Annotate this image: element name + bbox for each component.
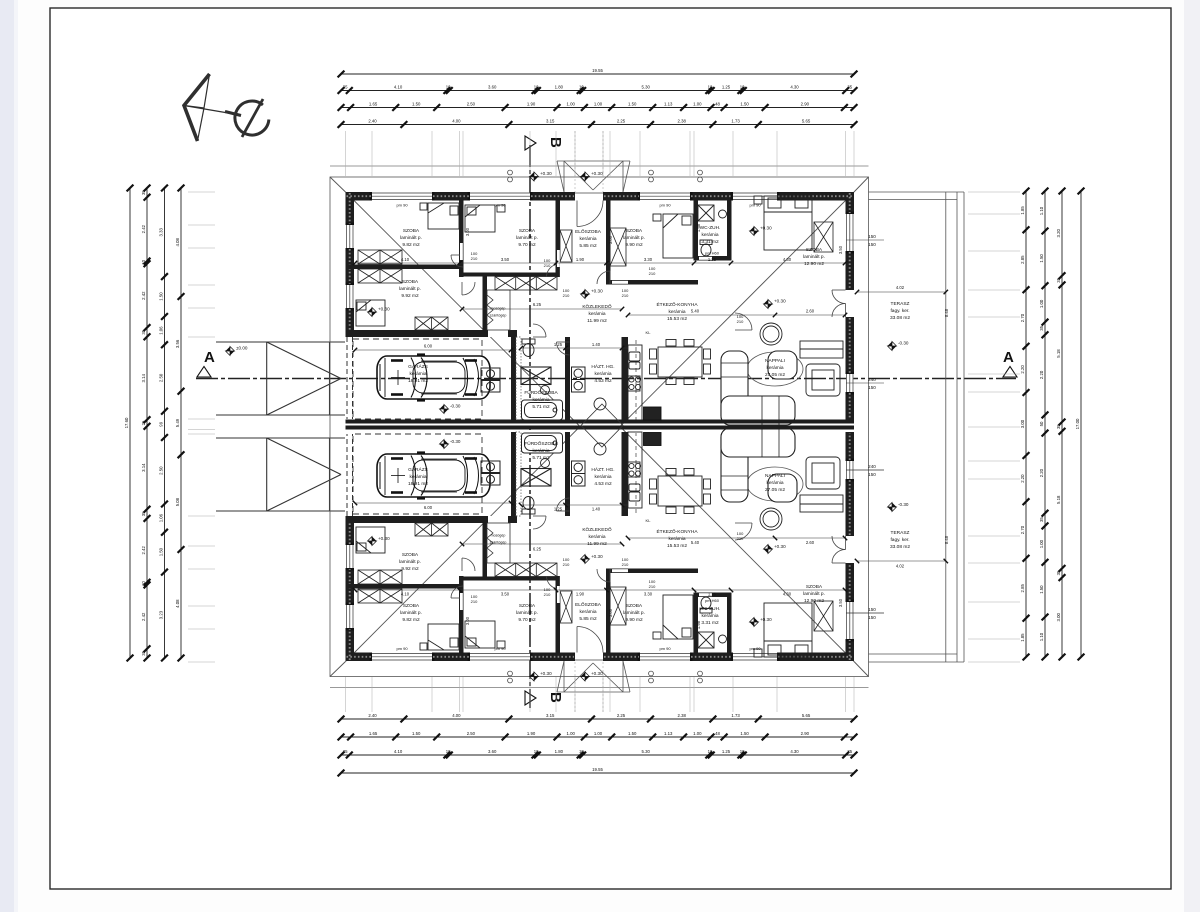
svg-text:210: 210 xyxy=(649,271,656,276)
svg-text:laminált p.: laminált p. xyxy=(516,610,538,616)
svg-text:9.82 m2: 9.82 m2 xyxy=(402,242,420,248)
svg-text:48: 48 xyxy=(715,101,720,106)
middle dim line xyxy=(521,347,628,349)
entrance threshold xyxy=(575,192,603,194)
svg-text:2.70: 2.70 xyxy=(1020,525,1025,534)
svg-text:1.25: 1.25 xyxy=(708,257,717,262)
svg-text:240: 240 xyxy=(868,464,876,469)
washer dryer hazt xyxy=(572,367,586,392)
svg-text:laminált p.: laminált p. xyxy=(399,559,421,565)
svg-text:18.91 m2: 18.91 m2 xyxy=(408,378,428,384)
svg-text:1.85: 1.85 xyxy=(1020,633,1025,642)
svg-text:3.33: 3.33 xyxy=(159,228,164,237)
svg-text:+0.30: +0.30 xyxy=(591,554,603,559)
hazt door arc xyxy=(557,342,570,355)
svg-text:210: 210 xyxy=(737,536,744,541)
right chain 3 xyxy=(1056,188,1065,661)
ceiling dashed line xyxy=(635,340,637,420)
svg-text:1.73: 1.73 xyxy=(731,713,740,718)
svg-text:5.71 m2: 5.71 m2 xyxy=(532,404,550,410)
exterior wall left xyxy=(346,192,355,225)
svg-text:kerámia: kerámia xyxy=(701,232,718,238)
svg-text:3.20: 3.20 xyxy=(1056,229,1061,238)
svg-text:35: 35 xyxy=(847,749,852,754)
svg-text:laminált p.: laminált p. xyxy=(516,235,538,241)
window left 1 xyxy=(346,223,355,251)
svg-text:9.92 m2: 9.92 m2 xyxy=(401,293,419,299)
insulation strip xyxy=(516,337,521,421)
svg-text:10: 10 xyxy=(141,581,146,586)
svg-text:-0.30: -0.30 xyxy=(898,341,909,346)
garage dashed outline xyxy=(353,339,482,419)
svg-text:35: 35 xyxy=(141,511,146,516)
svg-text:9.90 m2: 9.90 m2 xyxy=(625,617,643,623)
coffee table xyxy=(760,323,782,345)
svg-text:10: 10 xyxy=(141,259,146,264)
kitchen counter xyxy=(628,345,642,421)
svg-text:kerámia: kerámia xyxy=(766,480,783,486)
svg-text:szárítógép: szárítógép xyxy=(490,540,507,544)
interior wall szoba1/szoba2 xyxy=(346,265,464,270)
garage/bath wall xyxy=(511,337,516,421)
svg-text:SZOBA: SZOBA xyxy=(806,584,823,590)
level marker xyxy=(750,227,759,236)
svg-text:1.50: 1.50 xyxy=(1039,254,1044,263)
svg-text:+0.30: +0.30 xyxy=(774,299,786,304)
svg-text:9.82 m2: 9.82 m2 xyxy=(402,617,420,623)
svg-text:35: 35 xyxy=(141,329,146,334)
svg-text:10: 10 xyxy=(708,749,713,754)
level marker xyxy=(368,308,377,317)
svg-text:35: 35 xyxy=(1039,325,1044,330)
svg-text:3.15: 3.15 xyxy=(546,118,555,123)
svg-text:KL: KL xyxy=(646,330,652,335)
svg-text:150: 150 xyxy=(868,615,876,620)
living dim line xyxy=(628,314,845,316)
washer dryer mudroom xyxy=(481,368,500,392)
svg-text:2.38: 2.38 xyxy=(678,713,687,718)
svg-text:35: 35 xyxy=(1056,570,1061,575)
svg-text:10: 10 xyxy=(446,84,451,89)
right chain total xyxy=(1075,188,1084,661)
level marker xyxy=(888,342,897,351)
level marker xyxy=(440,405,449,414)
svg-text:3.50: 3.50 xyxy=(838,598,843,607)
insulation bubbles left wall xyxy=(349,193,351,224)
wardrobe szoba 9.70 xyxy=(495,277,557,291)
extension lines top xyxy=(345,131,347,176)
svg-text:1.90: 1.90 xyxy=(576,591,585,596)
svg-text:10: 10 xyxy=(740,84,745,89)
top chain rooms xyxy=(338,101,858,111)
svg-text:kerámia: kerámia xyxy=(701,613,718,619)
svg-text:B: B xyxy=(547,137,564,148)
wardrobe szoba 12.90 xyxy=(814,222,833,252)
svg-text:4.53 m2: 4.53 m2 xyxy=(594,378,612,384)
svg-text:2.20: 2.20 xyxy=(1020,474,1025,483)
bed szoba1 xyxy=(420,203,459,229)
svg-text:ELŐSZOBA: ELŐSZOBA xyxy=(575,601,602,608)
svg-text:1.13: 1.13 xyxy=(664,101,673,106)
svg-text:10: 10 xyxy=(446,749,451,754)
svg-text:B: B xyxy=(547,692,564,703)
svg-text:4.10: 4.10 xyxy=(394,749,403,754)
svg-text:1.00: 1.00 xyxy=(567,731,576,736)
svg-text:210: 210 xyxy=(622,293,629,298)
kitchen appliances middle xyxy=(581,404,661,447)
wardrobe szoba 9.90 xyxy=(610,228,626,266)
wardrobe wall xyxy=(462,273,559,277)
svg-text:3.50: 3.50 xyxy=(501,591,510,596)
left scan strip xyxy=(0,0,14,912)
corridor arc 1 xyxy=(462,282,475,295)
svg-text:pm 90: pm 90 xyxy=(659,646,671,651)
svg-text:1.85: 1.85 xyxy=(1020,206,1025,215)
svg-text:9.90 m2: 9.90 m2 xyxy=(625,242,643,248)
svg-text:kerámia: kerámia xyxy=(668,536,685,542)
svg-text:210: 210 xyxy=(737,319,744,324)
svg-text:3.14: 3.14 xyxy=(141,463,146,472)
exterior wall right xyxy=(846,251,855,290)
svg-text:5.18: 5.18 xyxy=(1056,495,1061,504)
svg-text:laminált p.: laminált p. xyxy=(623,235,645,241)
svg-text:3.00: 3.00 xyxy=(465,227,470,236)
bath sink xyxy=(541,386,550,395)
svg-text:NAPPALI: NAPPALI xyxy=(765,473,785,479)
svg-text:3.00: 3.00 xyxy=(608,235,613,244)
bed szoba 12.90 xyxy=(754,196,812,250)
level marker entry top 2 xyxy=(581,172,590,181)
svg-text:1.00: 1.00 xyxy=(594,731,603,736)
svg-text:5.85 m2: 5.85 m2 xyxy=(579,616,597,622)
svg-text:+0.30: +0.30 xyxy=(540,671,552,676)
right chain 1 xyxy=(1020,188,1029,661)
svg-text:4.30: 4.30 xyxy=(790,749,799,754)
svg-text:1.00: 1.00 xyxy=(594,101,603,106)
svg-text:4.53 m2: 4.53 m2 xyxy=(594,481,612,487)
svg-text:10: 10 xyxy=(740,749,745,754)
wardrobe szoba2 bottom xyxy=(415,317,448,330)
exterior wall top xyxy=(346,192,373,201)
svg-text:6.00: 6.00 xyxy=(424,344,433,349)
exterior wall top xyxy=(603,192,640,201)
svg-text:pm 90: pm 90 xyxy=(749,203,761,208)
svg-text:mosógép: mosógép xyxy=(491,307,506,311)
szoba 9.90 door arc xyxy=(597,271,610,284)
svg-text:2.90: 2.90 xyxy=(801,101,810,106)
svg-text:3.00: 3.00 xyxy=(465,616,470,625)
szoba 9.70 door arc xyxy=(547,264,560,277)
bath/hazt wall xyxy=(565,337,570,421)
svg-text:18.91 m2: 18.91 m2 xyxy=(408,481,428,487)
svg-text:2.42: 2.42 xyxy=(141,224,146,233)
svg-text:4.30: 4.30 xyxy=(783,257,792,262)
interior dim line rooms xyxy=(353,261,847,265)
svg-text:1.40: 1.40 xyxy=(592,506,601,511)
svg-text:1.90: 1.90 xyxy=(576,257,585,262)
bottom chain total xyxy=(338,767,858,777)
svg-text:9.70 m2: 9.70 m2 xyxy=(518,617,536,623)
svg-text:pm 90: pm 90 xyxy=(659,203,671,208)
svg-text:laminált p.: laminált p. xyxy=(400,610,422,616)
svg-text:8.48: 8.48 xyxy=(944,308,949,317)
svg-text:210: 210 xyxy=(544,263,551,268)
svg-text:19.55: 19.55 xyxy=(592,767,603,772)
svg-text:1.50: 1.50 xyxy=(740,731,749,736)
svg-text:2.42: 2.42 xyxy=(141,291,146,300)
svg-text:210: 210 xyxy=(563,562,570,567)
entrance extension lines xyxy=(574,131,576,192)
svg-text:15.53 m2: 15.53 m2 xyxy=(667,316,687,322)
svg-text:+0.30: +0.30 xyxy=(760,226,772,231)
svg-text:17.60: 17.60 xyxy=(124,417,129,428)
party wall xyxy=(346,420,855,424)
section marker B top xyxy=(525,136,536,150)
wc fixtures xyxy=(698,205,727,256)
svg-text:szárítógép: szárítógép xyxy=(490,313,507,317)
svg-text:SZOBA: SZOBA xyxy=(519,228,536,234)
svg-text:10: 10 xyxy=(579,749,584,754)
svg-text:1.00: 1.00 xyxy=(1039,539,1044,548)
svg-text:4.00: 4.00 xyxy=(452,713,461,718)
svg-text:15.53 m2: 15.53 m2 xyxy=(667,543,687,549)
svg-text:1.65: 1.65 xyxy=(369,731,378,736)
top chain total xyxy=(338,68,858,78)
svg-text:2.90: 2.90 xyxy=(801,731,810,736)
svg-text:laminált p.: laminált p. xyxy=(803,254,825,260)
svg-text:1.25: 1.25 xyxy=(722,749,731,754)
svg-text:10: 10 xyxy=(579,84,584,89)
svg-text:2.20: 2.20 xyxy=(1039,370,1044,379)
svg-text:A: A xyxy=(204,349,215,366)
svg-text:KL: KL xyxy=(646,518,652,523)
laundry closet xyxy=(487,290,510,330)
svg-text:kerámia: kerámia xyxy=(766,365,783,371)
svg-text:1.90: 1.90 xyxy=(527,731,536,736)
svg-text:+0.30: +0.30 xyxy=(378,536,390,541)
svg-text:35: 35 xyxy=(343,84,348,89)
interior wall eloszoba right xyxy=(606,201,611,285)
svg-text:WC-ZUH.: WC-ZUH. xyxy=(700,225,721,231)
svg-text:1.90: 1.90 xyxy=(527,101,536,106)
svg-text:2.38: 2.38 xyxy=(678,118,687,123)
svg-text:laminált p.: laminált p. xyxy=(803,591,825,597)
svg-text:1.06: 1.06 xyxy=(159,513,164,522)
svg-text:+0.30: +0.30 xyxy=(378,307,390,312)
svg-text:5.18: 5.18 xyxy=(1056,349,1061,358)
svg-text:48: 48 xyxy=(715,731,720,736)
driveway lower garage xyxy=(216,438,345,511)
svg-text:8.48: 8.48 xyxy=(944,535,949,544)
svg-text:12.90 m2: 12.90 m2 xyxy=(804,261,824,267)
car in garage xyxy=(377,355,490,401)
svg-text:TERASZ: TERASZ xyxy=(891,530,910,536)
svg-text:1.50: 1.50 xyxy=(628,731,637,736)
nappali rug ellipse xyxy=(747,352,803,386)
svg-text:33.08 m2: 33.08 m2 xyxy=(890,315,910,321)
svg-text:SZOBA: SZOBA xyxy=(402,279,419,285)
svg-text:210: 210 xyxy=(471,256,478,261)
svg-text:2.40: 2.40 xyxy=(368,713,377,718)
svg-text:3.31 m2: 3.31 m2 xyxy=(701,620,719,626)
bottom chain openings xyxy=(338,749,858,759)
svg-text:10: 10 xyxy=(534,749,539,754)
svg-text:kerámia: kerámia xyxy=(594,371,611,377)
svg-text:-0.30: -0.30 xyxy=(450,439,461,444)
terrace door arc 2 xyxy=(832,304,846,318)
window right 2 xyxy=(846,372,855,395)
svg-text:kerámia: kerámia xyxy=(579,236,596,242)
exterior wall left xyxy=(346,308,355,337)
corridor dim line xyxy=(462,308,622,310)
section line A-A xyxy=(196,378,1016,380)
svg-text:1.10: 1.10 xyxy=(1039,632,1044,641)
svg-text:SZOBA: SZOBA xyxy=(403,228,420,234)
svg-text:4.30: 4.30 xyxy=(790,84,799,89)
svg-text:SZOBA: SZOBA xyxy=(402,552,419,558)
svg-text:NAPPALI: NAPPALI xyxy=(765,358,785,364)
svg-text:6.25: 6.25 xyxy=(533,302,542,307)
svg-text:9.70 m2: 9.70 m2 xyxy=(518,242,536,248)
svg-text:3.00: 3.00 xyxy=(1056,613,1061,622)
svg-text:3.15: 3.15 xyxy=(546,713,555,718)
wardrobe szoba2 top xyxy=(358,269,402,283)
svg-text:1.73: 1.73 xyxy=(731,118,740,123)
svg-text:210: 210 xyxy=(471,599,478,604)
door gap szoba1 xyxy=(460,243,463,260)
entrance door arc xyxy=(577,201,603,227)
svg-text:9.92 m2: 9.92 m2 xyxy=(401,566,419,572)
gutter line top xyxy=(330,165,869,167)
garage top wall xyxy=(346,330,518,337)
svg-text:pm 90: pm 90 xyxy=(396,646,408,651)
svg-text:SZOBA: SZOBA xyxy=(626,603,643,609)
bathtub xyxy=(522,400,563,420)
svg-text:pm H60: pm H60 xyxy=(705,598,720,603)
tv bench and armchair xyxy=(800,341,843,396)
extension lines left xyxy=(188,191,215,193)
svg-text:3.50: 3.50 xyxy=(501,257,510,262)
svg-text:5.40: 5.40 xyxy=(691,309,700,314)
svg-text:HÁZT. HG.: HÁZT. HG. xyxy=(591,363,614,370)
left chain total xyxy=(124,185,133,662)
svg-text:33.08 m2: 33.08 m2 xyxy=(890,544,910,550)
svg-text:pm 90: pm 90 xyxy=(494,203,506,208)
svg-text:3.30: 3.30 xyxy=(644,257,653,262)
svg-text:GARÁZS: GARÁZS xyxy=(408,466,428,473)
svg-text:1.00: 1.00 xyxy=(693,101,702,106)
bottom chain walls xyxy=(338,713,858,723)
bottom chain rooms xyxy=(338,731,858,741)
window szoba 9.70 xyxy=(468,192,533,201)
insulation bubbles right wall xyxy=(849,193,851,213)
svg-text:kerámia: kerámia xyxy=(532,448,549,454)
szoba 9.90 bottom wall xyxy=(606,280,698,285)
svg-text:4.02: 4.02 xyxy=(896,563,905,568)
svg-text:ELŐSZOBA: ELŐSZOBA xyxy=(575,228,602,235)
svg-text:TERASZ: TERASZ xyxy=(891,301,910,307)
exterior wall top xyxy=(690,192,733,201)
wardrobe szoba1 xyxy=(358,250,402,264)
svg-text:ÉTKEZŐ-KONYHA: ÉTKEZŐ-KONYHA xyxy=(656,528,698,535)
svg-text:1.50: 1.50 xyxy=(159,292,164,301)
extension lines bottom xyxy=(345,677,347,712)
svg-text:1.00: 1.00 xyxy=(1039,299,1044,308)
svg-text:1.80: 1.80 xyxy=(555,749,564,754)
svg-text:1.50: 1.50 xyxy=(159,547,164,556)
svg-text:kerámia: kerámia xyxy=(409,474,426,480)
svg-text:1.13: 1.13 xyxy=(664,731,673,736)
svg-text:35: 35 xyxy=(1056,277,1061,282)
svg-text:150: 150 xyxy=(868,234,876,239)
svg-text:10: 10 xyxy=(708,84,713,89)
window szoba 9.90 xyxy=(638,192,693,201)
svg-text:35: 35 xyxy=(1056,424,1061,429)
window left 2 xyxy=(346,283,355,311)
svg-text:5.71 m2: 5.71 m2 xyxy=(532,455,550,461)
svg-text:+0.30: +0.30 xyxy=(591,671,603,676)
eloszoba closet xyxy=(560,230,572,262)
exterior wall top xyxy=(530,192,575,201)
exterior wall right xyxy=(846,392,855,421)
svg-text:35: 35 xyxy=(1039,517,1044,522)
svg-text:25: 25 xyxy=(141,420,146,425)
eaves outline xyxy=(330,177,964,677)
svg-text:1.65: 1.65 xyxy=(369,101,378,106)
svg-text:+0.30: +0.30 xyxy=(774,544,786,549)
svg-text:4.02: 4.02 xyxy=(896,285,905,290)
svg-text:5.30: 5.30 xyxy=(642,84,651,89)
svg-text:3.60: 3.60 xyxy=(488,84,497,89)
svg-text:2.50: 2.50 xyxy=(467,731,476,736)
svg-text:mosógép: mosógép xyxy=(491,534,506,538)
svg-text:10: 10 xyxy=(534,84,539,89)
svg-text:KÖZLEKEDŐ: KÖZLEKEDŐ xyxy=(582,526,612,533)
svg-text:4.00: 4.00 xyxy=(452,118,461,123)
svg-text:4.30: 4.30 xyxy=(783,591,792,596)
level marker xyxy=(581,290,590,299)
level marker xyxy=(764,300,773,309)
left chain 3 xyxy=(159,185,168,662)
level marker entry bottom 2 xyxy=(581,672,590,681)
svg-text:SZOBA: SZOBA xyxy=(519,603,536,609)
svg-text:kerámia: kerámia xyxy=(668,309,685,315)
exterior wall right xyxy=(846,192,855,214)
svg-text:2.85: 2.85 xyxy=(1020,255,1025,264)
svg-text:ÉTKEZŐ-KONYHA: ÉTKEZŐ-KONYHA xyxy=(656,301,698,308)
window right 1 xyxy=(846,212,855,254)
svg-text:2.40: 2.40 xyxy=(368,118,377,123)
svg-text:12.90 m2: 12.90 m2 xyxy=(804,598,824,604)
svg-text:kerámia: kerámia xyxy=(594,474,611,480)
svg-text:+0.30: +0.30 xyxy=(540,171,552,176)
svg-text:2.70: 2.70 xyxy=(1020,313,1025,322)
svg-text:1.98: 1.98 xyxy=(696,620,701,629)
svg-text:3.23: 3.23 xyxy=(159,610,164,619)
svg-text:5.30: 5.30 xyxy=(642,749,651,754)
hazt/kitchen wall xyxy=(622,337,629,421)
svg-text:-0.30: -0.30 xyxy=(898,502,909,507)
svg-text:240: 240 xyxy=(868,377,876,382)
svg-text:GARÁZS: GARÁZS xyxy=(408,363,428,370)
svg-text:4.10: 4.10 xyxy=(394,84,403,89)
svg-text:1.00: 1.00 xyxy=(567,101,576,106)
svg-text:FÜRDŐSZOBA: FÜRDŐSZOBA xyxy=(524,440,558,447)
exterior wall left xyxy=(346,248,355,285)
svg-text:3.56: 3.56 xyxy=(175,339,180,348)
right wall dim 150 xyxy=(846,239,884,241)
svg-text:5.65: 5.65 xyxy=(802,713,811,718)
